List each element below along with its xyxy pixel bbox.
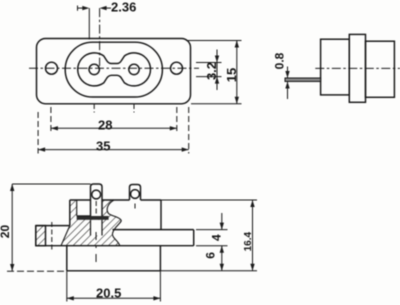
svg-text:20.5: 20.5 <box>96 286 121 301</box>
svg-text:0.8: 0.8 <box>273 52 287 69</box>
svg-text:35: 35 <box>96 139 110 154</box>
svg-text:4: 4 <box>210 234 224 241</box>
svg-text:20: 20 <box>0 225 12 239</box>
svg-text:3.2: 3.2 <box>204 62 219 80</box>
svg-text:15: 15 <box>224 68 239 82</box>
svg-text:28: 28 <box>98 118 112 133</box>
svg-text:6: 6 <box>204 252 218 259</box>
svg-text:16.4: 16.4 <box>243 232 254 252</box>
svg-text:2.36: 2.36 <box>111 0 136 15</box>
